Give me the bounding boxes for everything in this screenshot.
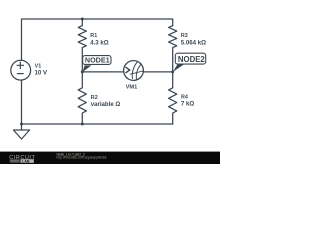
svg-text:R2: R2 (91, 95, 98, 101)
svg-text:NODE1: NODE1 (85, 56, 110, 65)
svg-text:R4: R4 (181, 94, 188, 100)
svg-text:variable Ω: variable Ω (91, 101, 121, 108)
svg-text:4.3 kΩ: 4.3 kΩ (90, 39, 109, 46)
svg-text:R1: R1 (90, 33, 97, 39)
svg-text:NODE2: NODE2 (178, 55, 206, 64)
svg-text:LAB: LAB (22, 159, 30, 163)
svg-text:10 V: 10 V (35, 69, 48, 76)
svg-text:R3: R3 (181, 33, 188, 39)
svg-text:7 kΩ: 7 kΩ (181, 101, 194, 108)
svg-text:VM1: VM1 (126, 84, 138, 90)
svg-text:http://circuitlab.com/c/gaeqvp: http://circuitlab.com/c/gaeqvpbhk6k (57, 156, 107, 160)
svg-text:5.064 kΩ: 5.064 kΩ (181, 39, 206, 46)
